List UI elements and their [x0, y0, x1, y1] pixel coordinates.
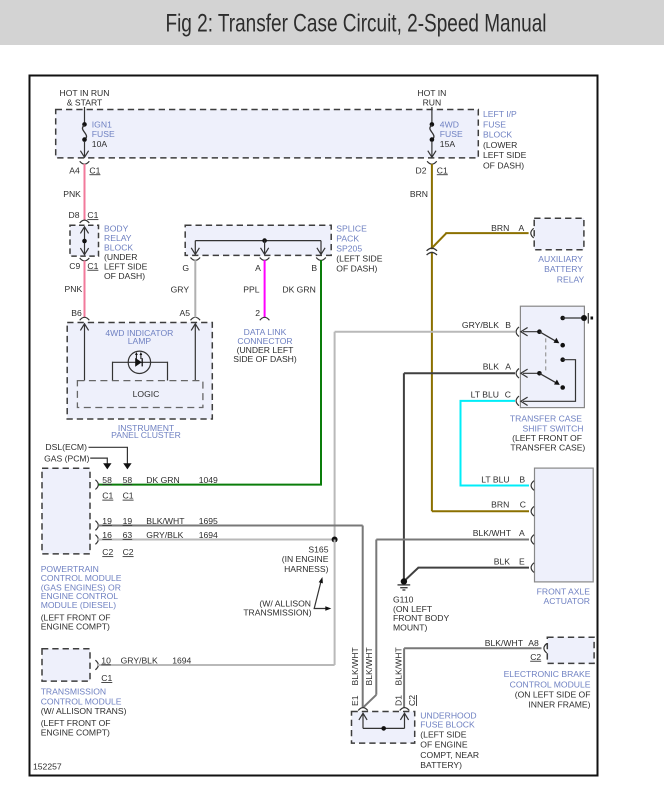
wire BLK actuator E to G110	[404, 557, 534, 582]
svg-text:SPLICE: SPLICE	[336, 224, 367, 234]
wire DK GRN B to PCM 58	[98, 260, 322, 485]
node HOT IN RUN & START	[60, 88, 110, 108]
svg-text:15A: 15A	[440, 139, 456, 149]
wire BLK/WHT 1695 pin 19 row	[95, 516, 362, 708]
svg-text:TRANSFER CASE): TRANSFER CASE)	[510, 443, 585, 453]
svg-text:HOT IN RUN: HOT IN RUN	[60, 88, 110, 98]
svg-text:B: B	[519, 475, 525, 485]
wire GRY/BLK switch B to S165	[335, 332, 515, 540]
svg-text:GRY/BLK: GRY/BLK	[146, 530, 183, 540]
svg-text:SIDE OF DASH): SIDE OF DASH)	[233, 354, 297, 364]
svg-text:PACK: PACK	[336, 234, 359, 244]
wire GRY G to A5	[171, 260, 196, 318]
svg-text:SHIFT SWITCH: SHIFT SWITCH	[523, 423, 584, 433]
svg-text:FUSE: FUSE	[92, 129, 115, 139]
svg-text:CONTROL MODULE: CONTROL MODULE	[510, 680, 591, 690]
svg-text:C1: C1	[123, 491, 134, 501]
svg-text:58: 58	[102, 475, 112, 485]
label FRONT AXLE ACTUATOR	[537, 587, 591, 606]
svg-text:PNK: PNK	[65, 284, 83, 294]
label AUXILIARY BATTERY RELAY	[538, 254, 584, 285]
connector A relay	[531, 228, 534, 238]
label GAS (PCM) arrow	[44, 454, 111, 470]
svg-text:(LOWER: (LOWER	[483, 140, 517, 150]
wire BLK switch A to G110	[404, 373, 515, 581]
svg-text:DK GRN: DK GRN	[146, 475, 179, 485]
svg-text:A: A	[518, 223, 524, 233]
svg-text:BLOCK: BLOCK	[483, 130, 512, 140]
label SPLICE PACK SP205	[336, 224, 382, 274]
PCM box	[42, 468, 90, 554]
svg-text:GAS (PCM): GAS (PCM)	[44, 454, 89, 464]
svg-text:HOT IN: HOT IN	[417, 88, 446, 98]
instrument panel cluster box	[67, 323, 212, 420]
svg-text:LEFT I/P: LEFT I/P	[483, 109, 517, 119]
svg-text:GRY/BLK: GRY/BLK	[462, 320, 499, 330]
switch arm B	[521, 328, 565, 348]
svg-text:152257: 152257	[33, 762, 62, 772]
transfer case shift switch box	[520, 306, 584, 407]
ground G110	[393, 578, 449, 632]
splice pack SP205 box	[185, 225, 331, 255]
wire LT BLU switch C to actuator B	[461, 401, 530, 486]
junction S165	[282, 537, 338, 666]
connector B switch	[462, 320, 519, 337]
svg-text:BATTERY: BATTERY	[544, 264, 583, 274]
fuse IGN1 10A	[80, 107, 115, 157]
fuse 4WD 15A	[428, 107, 463, 157]
svg-text:(ON LEFT SIDE OF: (ON LEFT SIDE OF	[515, 690, 591, 700]
node A5	[179, 308, 200, 320]
label DATA LINK CONNECTOR	[233, 327, 297, 364]
svg-text:TRANSFER CASE: TRANSFER CASE	[510, 414, 582, 424]
svg-text:D8: D8	[69, 210, 80, 220]
svg-text:OF DASH): OF DASH)	[104, 271, 145, 281]
svg-text:GRY/BLK: GRY/BLK	[121, 655, 158, 665]
svg-text:PNK: PNK	[63, 189, 81, 199]
label ELECTRONIC BRAKE CONTROL MODULE	[504, 669, 591, 709]
svg-text:B: B	[505, 320, 511, 330]
svg-text:(IN ENGINE: (IN ENGINE	[282, 554, 329, 564]
svg-text:ACTUATOR: ACTUATOR	[544, 596, 590, 606]
IPC pin A5 arrow	[191, 324, 199, 381]
svg-text:BRN: BRN	[491, 223, 509, 233]
label UNDERHOOD FUSE BLOCK	[420, 710, 479, 770]
wire GRY/BLK 1694 TCM pin 10	[95, 655, 334, 683]
svg-text:FUSE BLOCK: FUSE BLOCK	[420, 719, 475, 729]
labels BLK/WHT rotated	[350, 647, 404, 686]
svg-text:(LEFT FRONT OF: (LEFT FRONT OF	[512, 433, 582, 443]
wire BLK/WHT to EBCM	[404, 638, 547, 708]
svg-text:RUN: RUN	[423, 98, 442, 108]
svg-text:BATTERY): BATTERY)	[420, 760, 462, 770]
svg-text:INNER FRAME): INNER FRAME)	[528, 700, 590, 710]
svg-text:COMPT, NEAR: COMPT, NEAR	[420, 750, 479, 760]
svg-text:Fig 2: Transfer Case Circuit,: Fig 2: Transfer Case Circuit, 2-Speed Ma…	[165, 9, 546, 37]
label TRANSMISSION CONTROL MODULE	[41, 687, 127, 738]
wire BLK/WHT actuator A	[363, 528, 534, 707]
svg-text:B6: B6	[71, 308, 82, 318]
svg-text:A5: A5	[179, 308, 190, 318]
svg-text:A8: A8	[528, 638, 539, 648]
svg-text:1049: 1049	[199, 475, 218, 485]
front axle actuator box	[535, 468, 594, 582]
connector E1	[358, 708, 368, 711]
svg-text:BLK/WHT: BLK/WHT	[485, 638, 524, 648]
label INSTRUMENT PANEL CLUSTER	[111, 423, 181, 440]
svg-text:19: 19	[102, 516, 112, 526]
svg-text:C: C	[505, 389, 511, 399]
svg-text:MOUNT): MOUNT)	[393, 622, 428, 632]
svg-text:10: 10	[101, 655, 111, 665]
svg-text:BLK/WHT: BLK/WHT	[350, 647, 360, 686]
svg-text:LT BLU: LT BLU	[471, 389, 499, 399]
svg-text:(W/ ALLISON TRANS): (W/ ALLISON TRANS)	[41, 706, 127, 716]
node B6	[71, 308, 89, 320]
connector A	[255, 258, 269, 273]
wire BRN to actuator C label	[491, 500, 534, 517]
svg-text:OF ENGINE: OF ENGINE	[420, 740, 468, 750]
svg-text:C2: C2	[407, 695, 417, 706]
svg-text:C1: C1	[437, 165, 448, 175]
svg-text:SP205: SP205	[336, 244, 362, 254]
wire BRN branch to relay	[432, 223, 529, 248]
logic box	[77, 381, 202, 408]
svg-text:E: E	[519, 557, 525, 567]
svg-text:RELAY: RELAY	[104, 233, 132, 243]
svg-text:CONTROL MODULE: CONTROL MODULE	[41, 696, 122, 706]
label W/ ALLISON TRANSMISSION	[243, 577, 331, 618]
svg-text:DSL(ECM): DSL(ECM)	[45, 442, 87, 452]
left I/P fuse block dashed box	[56, 110, 479, 158]
svg-text:C: C	[520, 500, 526, 510]
svg-text:58: 58	[123, 475, 133, 485]
wire PNK C9 to B6	[65, 261, 85, 318]
svg-text:A: A	[505, 362, 511, 372]
schematic border frame	[30, 76, 598, 776]
svg-text:LAMP: LAMP	[128, 336, 152, 346]
svg-text:2: 2	[255, 308, 260, 318]
connector G	[182, 258, 200, 273]
connector C9 C1	[69, 258, 98, 271]
switch contact C path	[521, 357, 576, 405]
svg-text:ELECTRONIC BRAKE: ELECTRONIC BRAKE	[504, 669, 591, 679]
svg-text:IGN1: IGN1	[92, 120, 112, 130]
svg-text:1694: 1694	[199, 530, 218, 540]
connector 2 data link	[255, 308, 269, 320]
switch top contact to case	[560, 313, 593, 324]
svg-text:C2: C2	[123, 547, 134, 557]
svg-text:ENGINE COMPT): ENGINE COMPT)	[41, 727, 110, 737]
svg-text:BLOCK: BLOCK	[104, 243, 133, 253]
svg-text:A: A	[519, 528, 525, 538]
title bar	[0, 0, 664, 45]
svg-text:ENGINE COMPT): ENGINE COMPT)	[41, 621, 110, 631]
connector D2 C1	[416, 161, 449, 175]
connector B	[311, 258, 325, 273]
svg-text:C2: C2	[102, 547, 113, 557]
svg-text:BLK/WHT: BLK/WHT	[473, 528, 512, 538]
label DSL(ECM) arrow	[45, 442, 131, 469]
svg-text:BLK: BLK	[494, 557, 511, 567]
label POWERTRAIN CONTROL MODULE	[41, 564, 122, 631]
svg-text:C1: C1	[89, 165, 100, 175]
svg-text:BLK/WHT: BLK/WHT	[364, 647, 374, 686]
svg-text:A: A	[255, 263, 261, 273]
svg-text:LOGIC: LOGIC	[133, 389, 160, 399]
connector A switch	[483, 362, 519, 379]
svg-text:C1: C1	[87, 261, 98, 271]
svg-text:A4: A4	[69, 165, 80, 175]
switch linkage dashed	[545, 338, 547, 371]
svg-text:C1: C1	[87, 210, 98, 220]
node HOT IN RUN (right)	[417, 88, 446, 108]
label LEFT I/P FUSE BLOCK	[483, 109, 527, 170]
svg-text:HARNESS): HARNESS)	[284, 564, 329, 574]
svg-text:LEFT SIDE: LEFT SIDE	[483, 150, 527, 160]
underhood fuse block	[352, 712, 415, 744]
label 4WD INDICATOR LAMP	[105, 328, 173, 346]
TCM box	[42, 649, 90, 681]
svg-text:BRN: BRN	[491, 500, 509, 510]
labels E1 D1 C2 rotated	[350, 695, 417, 706]
svg-text:C2: C2	[530, 652, 541, 662]
svg-text:OF DASH): OF DASH)	[483, 161, 524, 171]
svg-text:BODY: BODY	[104, 224, 129, 234]
label TRANSFER CASE SHIFT SWITCH	[510, 414, 586, 453]
svg-text:FUSE: FUSE	[483, 120, 506, 130]
svg-text:LEFT SIDE: LEFT SIDE	[104, 262, 148, 272]
connector A4 C1	[69, 161, 100, 175]
svg-text:16: 16	[102, 530, 112, 540]
svg-text:D1: D1	[394, 695, 404, 706]
svg-text:OF DASH): OF DASH)	[336, 264, 377, 274]
svg-text:BLK: BLK	[483, 362, 500, 372]
auxiliary battery relay box	[534, 218, 584, 250]
svg-text:S165: S165	[308, 545, 328, 555]
svg-text:E1: E1	[350, 695, 360, 706]
svg-text:(UNDER: (UNDER	[104, 252, 137, 262]
svg-text:19: 19	[123, 516, 133, 526]
svg-text:63: 63	[123, 530, 133, 540]
connector B actuator	[531, 481, 534, 491]
wire PPL A to DLC 2	[243, 260, 264, 318]
svg-text:GRY: GRY	[171, 285, 190, 295]
svg-text:PANEL CLUSTER: PANEL CLUSTER	[111, 430, 181, 440]
svg-text:BRN: BRN	[410, 189, 428, 199]
svg-text:C1: C1	[102, 491, 113, 501]
svg-text:MODULE (DIESEL): MODULE (DIESEL)	[41, 600, 117, 610]
svg-text:B: B	[311, 263, 317, 273]
svg-text:C1: C1	[101, 673, 112, 683]
wire PNK A4 to D8	[63, 164, 84, 220]
connector C switch	[471, 389, 519, 405]
svg-text:PPL: PPL	[243, 285, 259, 295]
electronic brake control module box	[547, 637, 594, 663]
svg-text:1694: 1694	[172, 655, 191, 665]
body relay block	[70, 225, 99, 256]
svg-text:LT BLU: LT BLU	[481, 475, 509, 485]
svg-text:FUSE: FUSE	[440, 129, 463, 139]
svg-text:1695: 1695	[199, 516, 218, 526]
indicator lamp	[113, 351, 168, 381]
switch arm A	[521, 369, 565, 390]
svg-text:G: G	[182, 263, 189, 273]
svg-text:TRANSMISSION): TRANSMISSION)	[243, 608, 311, 618]
svg-text:C9: C9	[69, 261, 80, 271]
connector D8 C1	[69, 210, 99, 223]
svg-text:4WD: 4WD	[440, 120, 459, 130]
svg-text:RELAY: RELAY	[557, 275, 585, 285]
svg-text:DK GRN: DK GRN	[282, 285, 315, 295]
svg-text:AUXILIARY: AUXILIARY	[538, 254, 583, 264]
wire BRN D2 down	[410, 164, 529, 511]
svg-text:TRANSMISSION: TRANSMISSION	[41, 687, 106, 697]
connector pin 58 row	[95, 475, 218, 501]
svg-text:& START: & START	[67, 98, 103, 108]
wire GRY/BLK 1694 pin 16 63 row	[95, 530, 334, 557]
connector D1	[400, 708, 410, 711]
svg-text:D2: D2	[416, 165, 427, 175]
svg-text:(LEFT SIDE: (LEFT SIDE	[420, 729, 466, 739]
svg-text:(LEFT SIDE: (LEFT SIDE	[336, 254, 382, 264]
label 152257	[33, 762, 62, 772]
IPC pin B6 arrow	[80, 324, 88, 381]
svg-text:10A: 10A	[92, 139, 108, 149]
wire break symbol on BRN	[427, 248, 437, 255]
svg-text:BLK/WHT: BLK/WHT	[146, 516, 185, 526]
svg-text:BLK/WHT: BLK/WHT	[394, 647, 404, 686]
label BODY RELAY BLOCK	[104, 224, 148, 282]
